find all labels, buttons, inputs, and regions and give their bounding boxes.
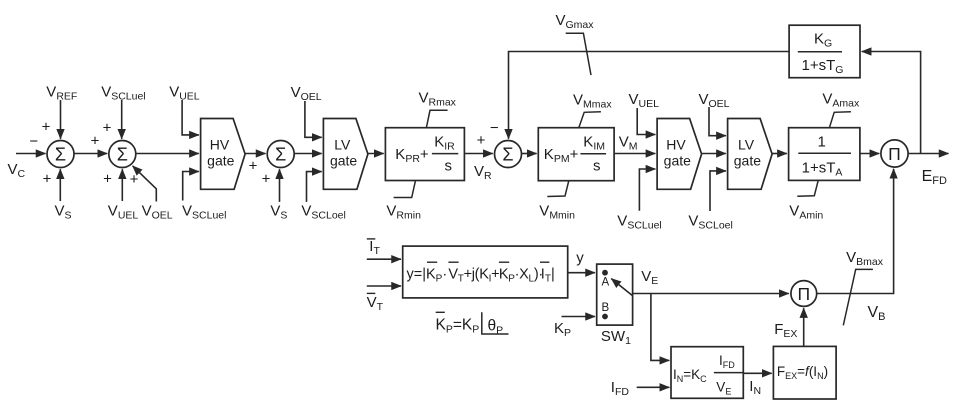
svg-text:+: +	[477, 132, 486, 149]
svg-text:KP·XL)·: KP·XL)·	[499, 267, 543, 285]
svg-text:VT+j(KI+: VT+j(KI+	[448, 267, 499, 285]
svg-text:Σ: Σ	[275, 144, 286, 164]
svg-text:y: y	[576, 250, 584, 267]
svg-text:−: −	[490, 120, 499, 137]
svg-text:+: +	[91, 133, 100, 150]
svg-text:Π: Π	[888, 144, 901, 164]
svg-text:LV: LV	[334, 137, 351, 153]
svg-text:1: 1	[818, 134, 826, 151]
svg-text:A: A	[602, 277, 610, 289]
svg-text:−: −	[29, 133, 38, 150]
svg-text:+: +	[103, 120, 112, 137]
svg-text:+: +	[262, 171, 271, 188]
svg-text:s: s	[593, 158, 601, 175]
svg-text:Σ: Σ	[117, 144, 128, 164]
svg-text:+: +	[103, 171, 112, 188]
svg-text:+: +	[43, 171, 52, 188]
svg-text:B: B	[602, 302, 610, 314]
svg-text:gate: gate	[330, 152, 357, 168]
svg-text:HV: HV	[666, 137, 686, 153]
svg-text:gate: gate	[664, 152, 691, 168]
svg-text:HV: HV	[210, 137, 230, 153]
svg-text:Σ: Σ	[502, 144, 513, 164]
svg-text:Π: Π	[797, 284, 810, 304]
svg-text:LV: LV	[738, 137, 755, 153]
svg-text:s: s	[445, 158, 453, 175]
svg-text:+: +	[42, 119, 51, 136]
svg-text:Σ: Σ	[55, 144, 66, 164]
svg-text:gate: gate	[734, 152, 761, 168]
svg-text:gate: gate	[207, 152, 234, 168]
svg-text:+: +	[130, 171, 139, 188]
svg-text:+: +	[249, 158, 258, 175]
